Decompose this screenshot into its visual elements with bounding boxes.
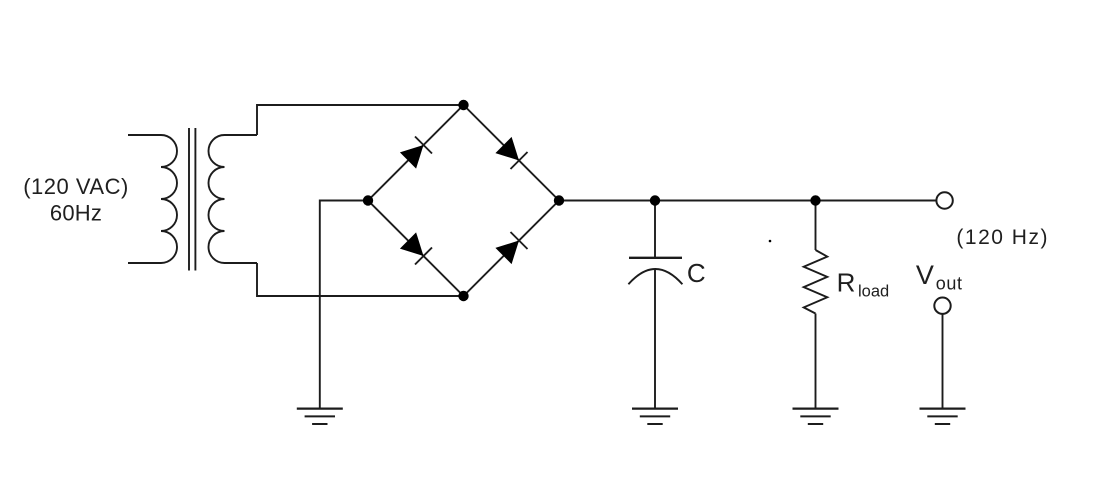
- svg-text:out: out: [936, 274, 963, 294]
- svg-text:60Hz: 60Hz: [50, 201, 102, 226]
- svg-text:(120 VAC): (120 VAC): [23, 174, 129, 199]
- svg-text:(120 Hz): (120 Hz): [956, 226, 1049, 249]
- svg-text:R: R: [837, 268, 856, 298]
- svg-text:V: V: [916, 260, 934, 290]
- svg-text:C: C: [687, 258, 706, 288]
- svg-text:load: load: [858, 283, 889, 301]
